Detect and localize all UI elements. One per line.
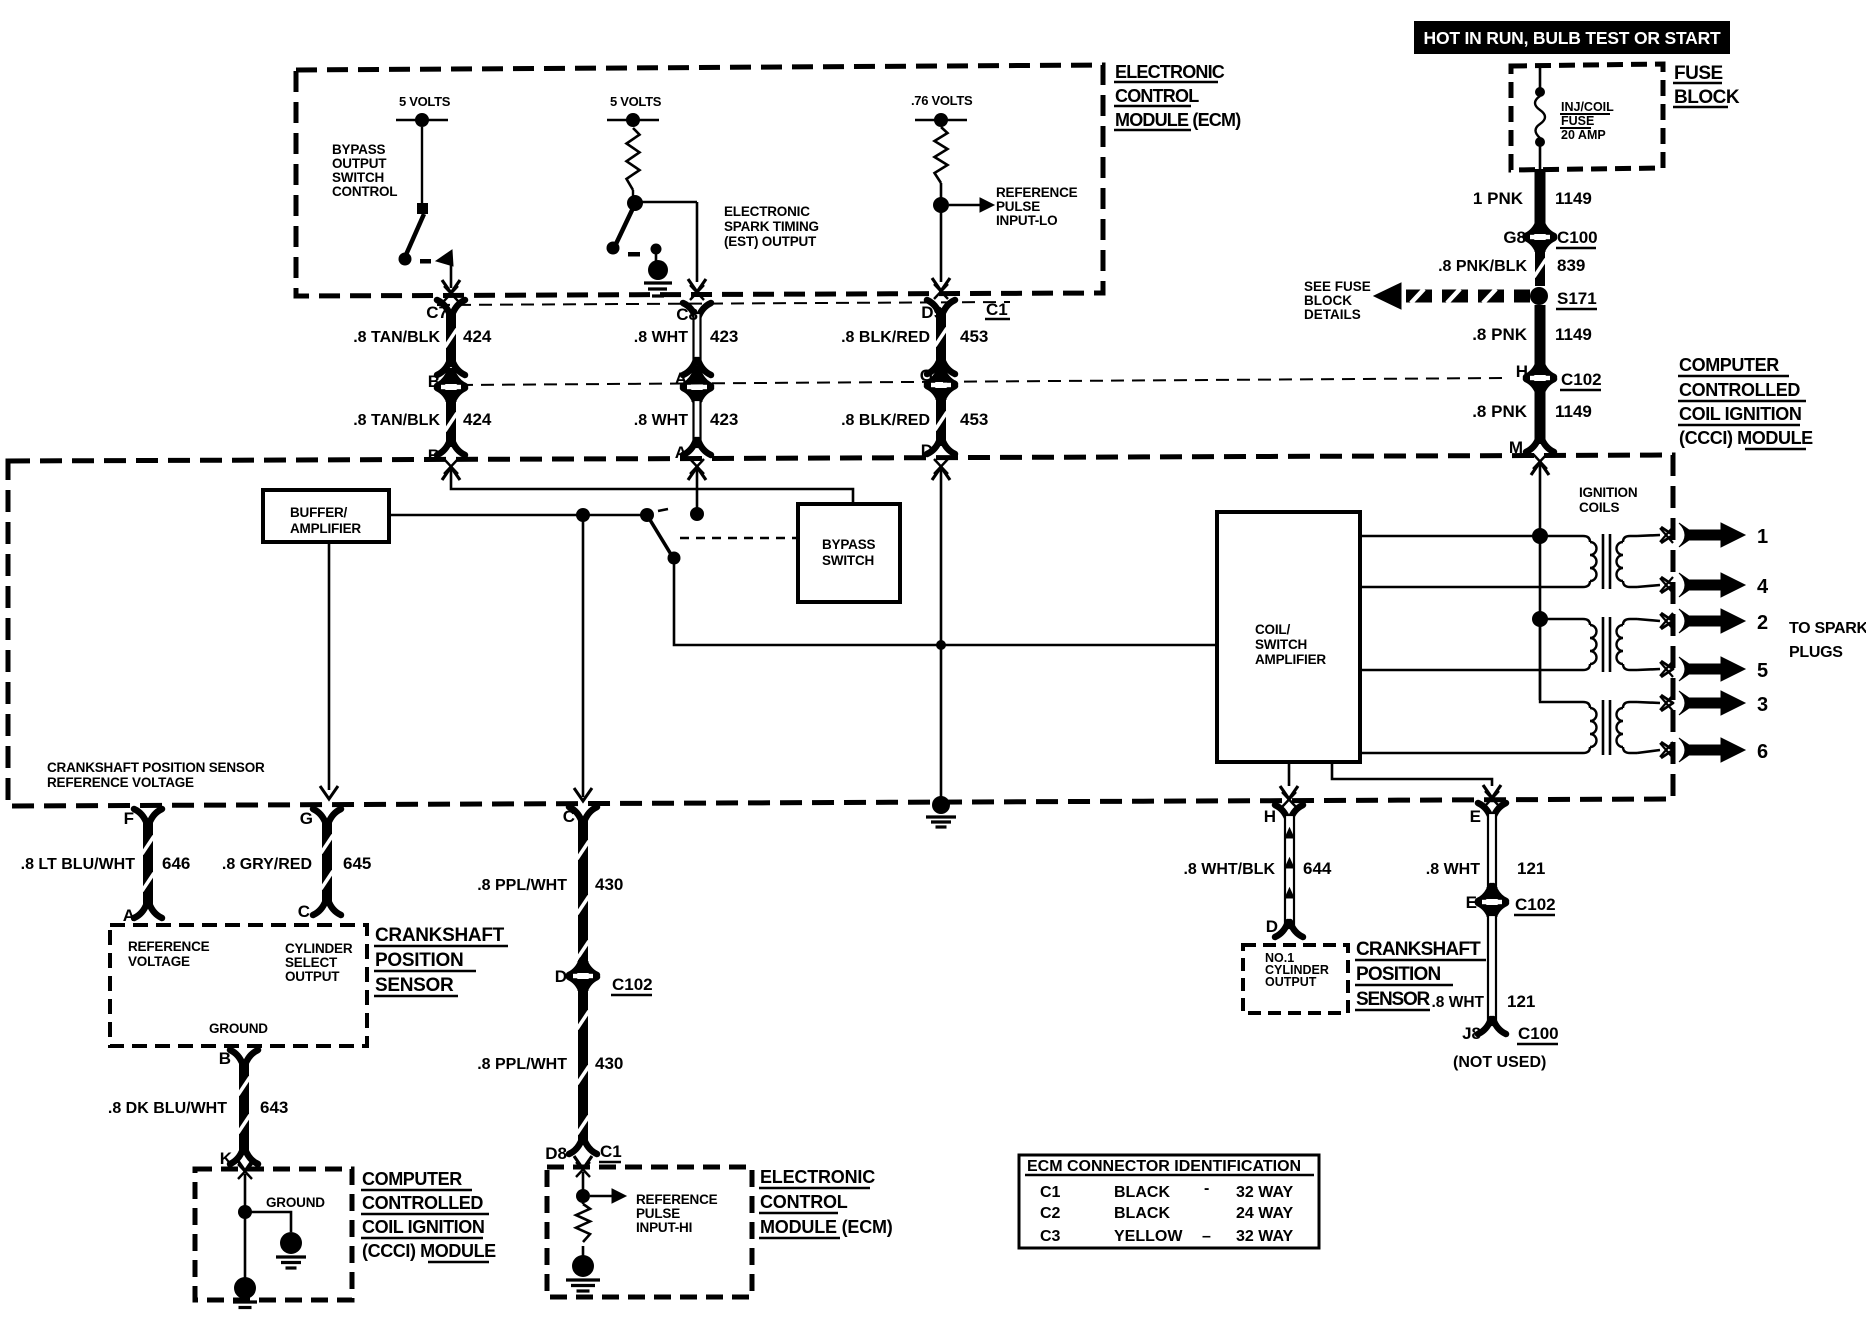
svg-text:POSITION: POSITION <box>1356 964 1440 985</box>
svg-text:BYPASS: BYPASS <box>822 537 876 552</box>
wire 453 .8 BLK/RED (upper) <box>927 300 940 315</box>
svg-text:AMPLIFIER: AMPLIFIER <box>290 521 361 536</box>
svg-text:BLACK: BLACK <box>1114 1184 1170 1201</box>
svg-text:121: 121 <box>1517 859 1545 878</box>
wire K to grounds <box>244 1174 247 1280</box>
junction reference pulse input-hi <box>576 1189 590 1203</box>
svg-text:MODULE (ECM): MODULE (ECM) <box>1115 110 1241 130</box>
svg-text:OUTPUT: OUTPUT <box>332 156 387 171</box>
svg-text:PULSE: PULSE <box>996 199 1040 214</box>
svg-text:COMPUTER: COMPUTER <box>362 1169 462 1189</box>
wire branch to ground <box>245 1212 291 1232</box>
svg-text:FUSE: FUSE <box>1561 114 1594 128</box>
svg-text:.8 TAN/BLK: .8 TAN/BLK <box>353 412 440 429</box>
svg-text:.8 PPL/WHT: .8 PPL/WHT <box>477 877 567 894</box>
svg-text:H: H <box>1516 362 1528 381</box>
svg-text:C102: C102 <box>1515 895 1556 914</box>
wire D8 to divider <box>582 1172 585 1204</box>
wire 423 .8 WHT (lower) <box>694 400 701 447</box>
svg-text:REFERENCE VOLTAGE: REFERENCE VOLTAGE <box>47 775 194 790</box>
svg-text:-: - <box>1204 1180 1209 1197</box>
svg-text:G: G <box>300 809 313 828</box>
wire 423 .8 WHT (upper) <box>683 303 696 318</box>
svg-text:CYLINDER: CYLINDER <box>285 941 353 956</box>
ignition coil 1 (cyl 1-4) <box>1576 536 1590 542</box>
wire coil/switch amp to E output <box>1332 762 1492 786</box>
box BUFFER/AMPLIFIER <box>263 490 389 542</box>
wire D to internal ground <box>940 468 943 797</box>
svg-text:3: 3 <box>1757 694 1768 716</box>
svg-text:CONTROL: CONTROL <box>1115 86 1199 106</box>
wire 1149 1 PNK (fuse to C100) <box>1535 169 1546 223</box>
wire buffer/amplifier output <box>389 514 647 517</box>
svg-text:839: 839 <box>1557 256 1585 275</box>
ignition coil 3 (cyl 3-6) <box>1576 702 1590 708</box>
svg-text:CRANKSHAFT: CRANKSHAFT <box>1356 939 1481 960</box>
svg-text:1149: 1149 <box>1555 402 1592 421</box>
svg-text:121: 121 <box>1507 992 1535 1011</box>
resistor ref-pulse input-hi <box>576 1204 590 1242</box>
svg-text:.8 WHT: .8 WHT <box>634 412 688 429</box>
svg-text:BLACK: BLACK <box>1114 1205 1170 1222</box>
svg-text:1: 1 <box>1757 526 1768 548</box>
svg-text:645: 645 <box>343 854 371 873</box>
junction M feed coil1 <box>1532 528 1548 544</box>
arrow to spark plug 1 <box>1679 523 1745 547</box>
wire coil1 secondary to plug 1 <box>1637 535 1660 536</box>
connector rail C102 (dashed) <box>460 378 1505 385</box>
wire switch blade to coil/switch amplifier <box>674 560 1217 645</box>
box BYPASS SWITCH <box>798 504 900 602</box>
wire buffer/amplifier to G <box>328 542 331 790</box>
wire resistor to EST node <box>632 190 634 200</box>
svg-text:B: B <box>428 372 440 391</box>
svg-text:.8 WHT: .8 WHT <box>1431 994 1484 1011</box>
wire 121 .8 WHT (E to C102) <box>1478 803 1491 818</box>
wire 1149 .8 PNK (C102 to M) <box>1535 391 1546 444</box>
svg-text:C1: C1 <box>986 300 1008 319</box>
wire arrow from B into CCCI <box>442 467 460 480</box>
svg-text:SEE FUSE: SEE FUSE <box>1304 279 1371 294</box>
svg-text:C1: C1 <box>600 1142 622 1161</box>
wire coil1 secondary to plug 4 <box>1637 585 1660 587</box>
svg-text:643: 643 <box>260 1098 288 1117</box>
wire M to ignition coil feeds <box>1539 463 1542 700</box>
wire amp to coil1 primary top <box>1360 535 1576 538</box>
svg-text:423: 423 <box>710 327 738 346</box>
svg-text:SWITCH: SWITCH <box>1255 637 1307 652</box>
svg-text:DETAILS: DETAILS <box>1304 307 1361 322</box>
CCCI module box (dashed) <box>8 455 1673 806</box>
svg-text:.8 PPL/WHT: .8 PPL/WHT <box>477 1056 567 1073</box>
svg-text:OUTPUT: OUTPUT <box>285 969 340 984</box>
svg-text:INJ/COIL: INJ/COIL <box>1561 100 1614 114</box>
svg-text:C: C <box>563 807 575 826</box>
svg-text:424: 424 <box>463 327 492 346</box>
svg-text:644: 644 <box>1303 859 1332 878</box>
wire 5V to switch pivot <box>421 127 423 205</box>
wire C down-arrow at box edge <box>574 788 592 801</box>
svg-text:.8 WHT/BLK: .8 WHT/BLK <box>1183 861 1275 878</box>
wire 643 .8 DK BLU/WHT (B to K) <box>230 1050 243 1065</box>
wire A to switch contact <box>696 468 699 510</box>
svg-text:646: 646 <box>162 854 190 873</box>
svg-text:5 VOLTS: 5 VOLTS <box>610 94 662 109</box>
wire 453 .8 BLK/RED (lower) <box>936 398 946 446</box>
svg-text:ECM CONNECTOR IDENTIFICATION: ECM CONNECTOR IDENTIFICATION <box>1027 1158 1301 1175</box>
wire amp to coil2 primary bottom <box>1360 669 1576 672</box>
svg-text:COIL/: COIL/ <box>1255 622 1290 637</box>
svg-text:6: 6 <box>1757 741 1768 763</box>
wire D ground at box edge <box>932 796 950 814</box>
table ECM CONNECTOR IDENTIFICATION <box>1019 1155 1319 1248</box>
svg-text:424: 424 <box>463 410 492 429</box>
wire arrow from A into CCCI <box>688 467 706 480</box>
svg-text:C102: C102 <box>1561 370 1602 389</box>
arrow to spark plug 5 <box>1679 657 1745 681</box>
svg-text:1 PNK: 1 PNK <box>1473 189 1524 208</box>
connector rail C1 (dashed) <box>437 302 1010 305</box>
svg-text:IGNITION: IGNITION <box>1579 485 1637 500</box>
crankshaft position sensor box (dashed) <box>110 925 367 1046</box>
switch bypass-output (blade) <box>417 203 428 214</box>
svg-text:S171: S171 <box>1557 289 1597 308</box>
svg-text:C1: C1 <box>1040 1184 1061 1201</box>
svg-text:OUTPUT: OUTPUT <box>1265 975 1317 989</box>
wire arrow into C8 <box>688 279 706 292</box>
svg-text:INPUT-LO: INPUT-LO <box>996 213 1057 228</box>
svg-text:C100: C100 <box>1557 228 1598 247</box>
svg-text:SPARK TIMING: SPARK TIMING <box>724 219 819 234</box>
svg-text:C7: C7 <box>426 303 448 322</box>
svg-text:.8 PNK/BLK: .8 PNK/BLK <box>1438 258 1527 275</box>
svg-text:A: A <box>123 906 135 925</box>
wire 430 .8 PPL/WHT (C102 to D8) <box>578 989 588 1145</box>
wire node to C connector <box>582 515 585 797</box>
node reference pulse input-lo junction <box>940 183 943 282</box>
arrow to spark plug 2 <box>1679 609 1745 633</box>
ground (CCCI internal) <box>280 1232 302 1254</box>
fuse INJ/COIL 20 AMP <box>1539 66 1542 88</box>
svg-text:CONTROL: CONTROL <box>760 1192 848 1212</box>
svg-text:1149: 1149 <box>1555 189 1592 208</box>
svg-text:C3: C3 <box>1040 1228 1061 1245</box>
svg-text:5 VOLTS: 5 VOLTS <box>399 94 451 109</box>
svg-text:A: A <box>675 369 687 388</box>
svg-text:B: B <box>219 1049 231 1068</box>
wire arrow into C7 <box>442 280 460 293</box>
svg-text:SENSOR: SENSOR <box>1356 989 1431 1010</box>
wire coil/switch amp to H output <box>1288 762 1291 786</box>
svg-text:C100: C100 <box>1518 1024 1559 1043</box>
CCCI module box bottom-left (dashed) <box>195 1169 352 1300</box>
wire 424 .8 TAN/BLK (upper) <box>437 300 450 315</box>
switch contact to C7 <box>436 250 453 266</box>
wire 646 .8 LT BLU/WHT (F to A) <box>134 809 147 824</box>
splice S171 <box>1530 287 1548 305</box>
svg-text:F: F <box>124 809 134 828</box>
svg-text:C102: C102 <box>612 975 653 994</box>
ECM module box (dashed) <box>296 65 1103 296</box>
svg-text:HOT IN RUN, BULB TEST OR START: HOT IN RUN, BULB TEST OR START <box>1424 28 1722 48</box>
svg-text:VOLTAGE: VOLTAGE <box>128 954 190 969</box>
svg-text:C: C <box>298 902 310 921</box>
wire arrow from D into CCCI <box>932 467 950 480</box>
svg-text:ELECTRONIC: ELECTRONIC <box>760 1167 875 1187</box>
wire amp to coil1 primary bottom <box>1360 586 1576 589</box>
connector J8 C100 (not used) <box>1478 1019 1491 1034</box>
switch EST (blade) <box>615 206 634 246</box>
arrow to spark plug 4 <box>1679 573 1745 597</box>
connector E C102 (121) <box>1478 886 1491 901</box>
svg-text:REFERENCE: REFERENCE <box>636 1192 718 1207</box>
junction M feed coil2 <box>1532 611 1548 627</box>
svg-text:(CCCI) MODULE: (CCCI) MODULE <box>362 1241 496 1261</box>
svg-text:FUSE: FUSE <box>1674 63 1723 84</box>
svg-text:H: H <box>1264 807 1276 826</box>
svg-text:GROUND: GROUND <box>266 1195 325 1210</box>
svg-text:.8 LT BLU/WHT: .8 LT BLU/WHT <box>21 856 136 873</box>
wire arrow from M into CCCI <box>1531 462 1549 475</box>
wire arrow K into CCCI module <box>236 1158 254 1171</box>
svg-text:430: 430 <box>595 875 623 894</box>
svg-text:COIL IGNITION: COIL IGNITION <box>1679 404 1801 424</box>
svg-text:REFERENCE: REFERENCE <box>996 185 1078 200</box>
svg-text:PULSE: PULSE <box>636 1206 680 1221</box>
svg-text:.8 DK BLU/WHT: .8 DK BLU/WHT <box>108 1100 227 1117</box>
svg-text:SELECT: SELECT <box>285 955 338 970</box>
svg-text:D: D <box>1266 917 1278 936</box>
NO.1 cylinder output box (dashed) <box>1243 945 1348 1013</box>
svg-text:1149: 1149 <box>1555 325 1592 344</box>
wire 1149 .8 PNK (S171 to C102) <box>1535 305 1546 364</box>
svg-text:453: 453 <box>960 327 988 346</box>
svg-text:32 WAY: 32 WAY <box>1236 1184 1294 1201</box>
wire coil2 secondary to plug 2 <box>1637 619 1660 621</box>
svg-text:5: 5 <box>1757 660 1768 682</box>
arrow reference pulse input-hi <box>590 1195 612 1197</box>
wire arrow D8 into ECM <box>574 1156 592 1169</box>
ground (CCCI case) <box>234 1277 256 1299</box>
svg-text:(NOT USED): (NOT USED) <box>1453 1054 1546 1071</box>
ECM module box bottom (dashed) <box>547 1167 752 1297</box>
wire coil2 secondary to plug 5 <box>1637 669 1660 670</box>
svg-text:CONTROL: CONTROL <box>332 184 397 199</box>
connector A at C102 (423) <box>683 371 696 386</box>
svg-text:(EST) OUTPUT: (EST) OUTPUT <box>724 234 817 249</box>
svg-text:(CCCI) MODULE: (CCCI) MODULE <box>1679 428 1813 448</box>
svg-text:BUFFER/: BUFFER/ <box>290 505 348 520</box>
svg-text:.8 BLK/RED: .8 BLK/RED <box>841 329 930 346</box>
svg-text:BLOCK: BLOCK <box>1304 293 1352 308</box>
svg-text:INPUT-HI: INPUT-HI <box>636 1220 692 1235</box>
svg-text:BYPASS: BYPASS <box>332 142 386 157</box>
svg-text:24 WAY: 24 WAY <box>1236 1205 1294 1222</box>
svg-text:2: 2 <box>1757 612 1768 634</box>
switch bypass (internal) <box>640 508 654 522</box>
svg-text:.8 WHT: .8 WHT <box>1426 861 1480 878</box>
svg-text:BLOCK: BLOCK <box>1674 87 1740 108</box>
svg-text:ELECTRONIC: ELECTRONIC <box>1115 62 1225 82</box>
wire dashed bypass control to BYPASS SWITCH box <box>680 537 798 539</box>
wire 645 .8 GRY/RED (G to C) <box>313 809 326 824</box>
wire coil3 secondary to plug 6 <box>1637 750 1660 753</box>
svg-text:YELLOW: YELLOW <box>1114 1228 1183 1245</box>
svg-text:D9: D9 <box>921 303 943 322</box>
svg-text:453: 453 <box>960 410 988 429</box>
svg-text:D8: D8 <box>545 1144 567 1163</box>
wire M feed coil2 top <box>1540 618 1576 620</box>
resistor EST pullup <box>627 128 640 190</box>
svg-text:.8 WHT: .8 WHT <box>634 329 688 346</box>
svg-text:COIL IGNITION: COIL IGNITION <box>362 1217 484 1237</box>
svg-text:COILS: COILS <box>1579 500 1619 515</box>
connector B at C102 (424) <box>437 371 450 386</box>
svg-text:J8: J8 <box>1462 1024 1481 1043</box>
svg-text:SWITCH: SWITCH <box>332 170 384 185</box>
arrow to spark plug 6 <box>1679 738 1745 762</box>
junction node to C <box>576 508 590 522</box>
banner HOT IN RUN, BULB TEST OR START <box>1414 21 1730 54</box>
junction ground branch <box>238 1205 252 1219</box>
connector H C102 <box>1526 362 1539 377</box>
wire resistor to ground <box>582 1246 585 1256</box>
svg-text:REFERENCE: REFERENCE <box>128 939 210 954</box>
svg-text:.76 VOLTS: .76 VOLTS <box>911 93 973 108</box>
svg-text:POSITION: POSITION <box>375 950 463 971</box>
svg-text:AMPLIFIER: AMPLIFIER <box>1255 652 1326 667</box>
svg-text:SENSOR: SENSOR <box>375 975 454 996</box>
svg-text:TO SPARK: TO SPARK <box>1789 620 1866 637</box>
svg-text:G: G <box>920 366 933 385</box>
arrow reference pulse input-lo <box>949 204 980 206</box>
wire EST output to C8 <box>635 201 697 204</box>
svg-text:ELECTRONIC: ELECTRONIC <box>724 204 810 219</box>
svg-text:.8 PNK: .8 PNK <box>1472 325 1528 344</box>
svg-text:GROUND: GROUND <box>209 1021 268 1036</box>
connector D C102 (430) <box>569 960 582 975</box>
svg-text:MODULE (ECM): MODULE (ECM) <box>760 1217 893 1237</box>
ground (ECM internal) <box>572 1255 594 1277</box>
svg-text:.8 PNK: .8 PNK <box>1472 402 1528 421</box>
wire 424 .8 TAN/BLK (lower) <box>446 400 456 447</box>
svg-text:E: E <box>1470 807 1481 826</box>
svg-text:C2: C2 <box>1040 1205 1061 1222</box>
svg-text:4: 4 <box>1757 576 1769 598</box>
wire M feed coil3 top <box>1540 619 1576 702</box>
wire coil3 secondary to plug 3 <box>1637 702 1660 703</box>
svg-text:E: E <box>1466 893 1477 912</box>
svg-text:PLUGS: PLUGS <box>1789 644 1843 661</box>
svg-text:430: 430 <box>595 1054 623 1073</box>
wire amp to coil3 primary bottom <box>1360 752 1576 755</box>
wire 430 .8 PPL/WHT (C to C102) <box>569 807 582 822</box>
svg-text:C8: C8 <box>676 305 698 324</box>
svg-text:CRANKSHAFT POSITION SENSOR: CRANKSHAFT POSITION SENSOR <box>47 760 265 775</box>
arrow to spark plug 3 <box>1679 691 1745 715</box>
svg-text:CONTROLLED: CONTROLLED <box>1679 380 1800 400</box>
fuse block box (dashed) <box>1511 64 1663 170</box>
box COIL/SWITCH AMPLIFIER <box>1217 512 1360 762</box>
arrow SEE FUSE BLOCK DETAILS (dashed) <box>1374 283 1401 309</box>
svg-text:.8 BLK/RED: .8 BLK/RED <box>841 412 930 429</box>
svg-text:COMPUTER: COMPUTER <box>1679 355 1779 375</box>
resistor ref-pulse divider <box>935 127 948 183</box>
svg-text:B: B <box>428 446 440 465</box>
connector M into CCCI module <box>1526 437 1539 452</box>
ignition coil 2 (cyl 2-5) <box>1576 619 1590 625</box>
wire arrow into D9 <box>932 278 950 291</box>
svg-text:32 WAY: 32 WAY <box>1236 1228 1294 1245</box>
connector G8 C100 <box>1526 221 1539 236</box>
wire 839 .8 PNK/BLK <box>1535 250 1545 286</box>
svg-text:.8 TAN/BLK: .8 TAN/BLK <box>353 329 440 346</box>
wire B to bypass switch <box>451 468 853 504</box>
svg-text:20 AMP: 20 AMP <box>1561 128 1606 142</box>
junction blade wire x D wire <box>936 640 946 650</box>
svg-text:–: – <box>1202 1228 1211 1245</box>
svg-text:K: K <box>220 1149 233 1168</box>
contact with ground (EST) <box>651 244 662 255</box>
wire 644 .8 WHT/BLK (H to D) <box>1275 805 1288 820</box>
svg-text:D: D <box>555 967 567 986</box>
svg-text:CRANKSHAFT: CRANKSHAFT <box>375 925 505 946</box>
svg-text:CONTROLLED: CONTROLLED <box>362 1193 483 1213</box>
wire 121 .8 WHT (C102 to J8) <box>1488 915 1496 1025</box>
svg-text:.8 GRY/RED: .8 GRY/RED <box>222 856 312 873</box>
connector G at C102 (453) <box>927 369 940 384</box>
svg-text:G8: G8 <box>1503 228 1526 247</box>
svg-text:423: 423 <box>710 410 738 429</box>
svg-text:SWITCH: SWITCH <box>822 553 874 568</box>
